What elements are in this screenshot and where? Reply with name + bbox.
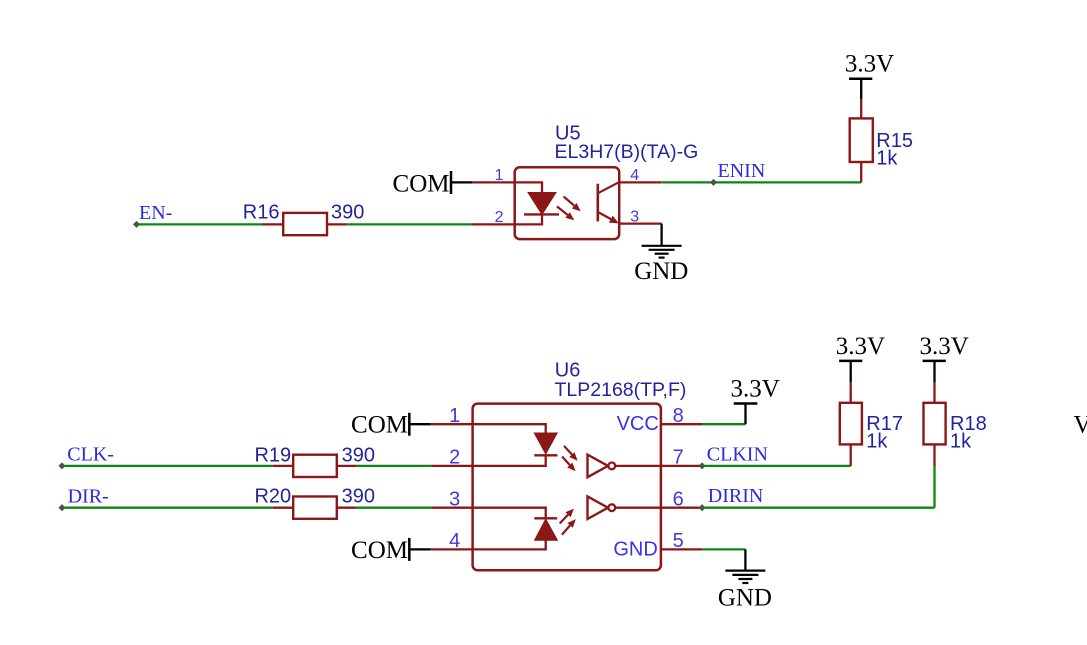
svg-text:TLP2168(TP,F): TLP2168(TP,F): [555, 379, 687, 401]
LED U5 cathode bar: [524, 213, 559, 215]
buffer U6 ch2 triangle: [588, 496, 609, 519]
svg-text:3.3V: 3.3V: [731, 376, 780, 403]
svg-text:VCC: VCC: [617, 413, 659, 435]
svg-text:1: 1: [449, 405, 460, 427]
svg-text:GND: GND: [613, 539, 657, 561]
ground GND2 stem: [744, 549, 746, 570]
wire EN- green: [138, 223, 263, 225]
ground GND2 bar4: [742, 582, 748, 584]
resistor R17 body: [840, 403, 862, 445]
node EN- anchor dot: [133, 221, 140, 228]
resistor R18 body: [924, 403, 946, 445]
wire U6 pin1 internal: [473, 424, 546, 433]
wire DIRIN green: [702, 507, 934, 509]
wire buffer1 output: [615, 465, 661, 467]
wire DIRIN vertical green: [933, 466, 935, 508]
svg-text:3.3V: 3.3V: [845, 51, 894, 78]
wire red to U6 pin 1: [431, 423, 473, 425]
power 3.3V stem: [860, 79, 862, 99]
wire buffer2 output: [615, 507, 661, 509]
light arrow 1 U6 ch2: [560, 515, 568, 524]
wire red to U6 pin 4: [431, 548, 473, 550]
svg-text:3.3V: 3.3V: [836, 333, 885, 360]
resistor R20 body: [293, 497, 337, 519]
node CLK- anchor dot: [58, 462, 65, 469]
LED1 U6 cathode bar: [534, 454, 557, 456]
wire U6 pin8 red: [661, 423, 702, 425]
ground GND1 stem: [660, 224, 662, 246]
ground GND2 bar3: [738, 578, 752, 580]
wire R18 bottom stub: [933, 444, 935, 466]
wire U5 pin2 internal: [515, 214, 542, 224]
node DIRIN anchor dot: [699, 504, 706, 511]
wire R19 right stub: [337, 465, 356, 467]
ground GND1 bar4: [659, 257, 665, 259]
ground GND2 bar2: [732, 574, 758, 576]
svg-text:ENIN: ENIN: [718, 160, 766, 182]
resistor R19 body: [293, 455, 337, 477]
wire pin5 green: [702, 548, 745, 550]
wire R17 top stub: [850, 382, 852, 403]
svg-text:COM: COM: [351, 537, 408, 564]
port COM bar: [450, 171, 453, 194]
wire U5 pin1 internal: [515, 182, 542, 193]
svg-text:EL3H7(B)(TA)-G: EL3H7(B)(TA)-G: [555, 141, 699, 163]
wire R20 right stub: [337, 507, 356, 509]
svg-text:1k: 1k: [950, 430, 972, 452]
light arrow 1 U5: [564, 197, 575, 206]
wire U5 pin3 red: [619, 222, 661, 224]
svg-text:CLKIN: CLKIN: [707, 443, 768, 465]
svg-text:COM: COM: [351, 412, 408, 439]
wire COM mid black stub: [409, 423, 431, 425]
svg-text:2: 2: [449, 447, 460, 469]
svg-text:390: 390: [342, 486, 375, 508]
wire red to U5 pin 2: [471, 223, 514, 225]
port COM mid bar: [408, 413, 411, 436]
svg-text:VM: VM: [1074, 412, 1087, 439]
wire red to U6 pin 2: [431, 465, 472, 467]
light arrow 2 U6 ch1: [562, 457, 570, 466]
svg-text:390: 390: [342, 444, 375, 466]
svg-text:R20: R20: [254, 486, 291, 508]
svg-text:2: 2: [495, 209, 504, 226]
wire U6 pin3 internal: [473, 508, 546, 519]
LED U5 anode triangle: [528, 193, 556, 215]
wire R16 left stub: [262, 223, 283, 225]
wire R15 top stub: [860, 99, 862, 118]
LED2 U6 cathode bar: [534, 517, 557, 519]
light arrow 2 U6 ch2: [562, 525, 570, 534]
svg-text:GND: GND: [718, 584, 772, 611]
transistor collector: [598, 182, 619, 193]
svg-text:GND: GND: [634, 258, 688, 285]
port COM bottom bar: [408, 538, 411, 561]
svg-text:3.3V: 3.3V: [920, 333, 969, 360]
power 3.3V R18 stem: [933, 361, 935, 382]
wire R16 right stub: [327, 223, 347, 225]
wire R17 bottom stub: [850, 444, 852, 466]
wire red to U5 pin 1: [472, 181, 515, 183]
wire green R20 to U6: [356, 507, 431, 509]
wire U5 pin4 red: [619, 181, 661, 183]
wire U6 pin2 internal: [473, 455, 546, 466]
svg-text:DIRIN: DIRIN: [708, 485, 764, 507]
transistor emitter: [598, 212, 612, 219]
LED2 U6 anode triangle (up): [535, 519, 558, 540]
svg-text:4: 4: [449, 530, 460, 552]
wire green R19 to U6: [356, 465, 431, 467]
LED1 U6 anode triangle: [534, 433, 557, 454]
wire green R16 to U5: [347, 223, 472, 225]
svg-text:CLK-: CLK-: [67, 444, 114, 466]
resistor R15 body: [850, 118, 873, 162]
transistor Q base line: [596, 184, 599, 222]
svg-text:3: 3: [449, 489, 460, 511]
buffer U6 ch1 bubble: [608, 463, 615, 470]
power 3.3V R17 stem: [850, 361, 852, 382]
wire U6 pin5 red: [661, 548, 702, 550]
power 3.3V pin8 stem: [744, 404, 746, 425]
wire R20 left stub: [273, 507, 293, 509]
wire DIR- green: [63, 507, 273, 509]
optocoupler U6 body: [473, 404, 661, 571]
light arrow 2 U5: [557, 206, 568, 215]
resistor R16 body: [283, 213, 327, 235]
wire U6 pin6 red: [661, 507, 702, 509]
svg-text:COM: COM: [393, 170, 450, 197]
power 3.3V bar: [849, 77, 872, 80]
wire pin8 green: [702, 423, 745, 425]
ground GND1 bar1: [642, 245, 682, 247]
wire COM bottom black stub: [409, 548, 431, 550]
ground GND1 bar3: [655, 253, 669, 255]
buffer U6 ch1 triangle: [588, 455, 609, 478]
light arrow 1 U6 ch1: [564, 446, 572, 455]
power 3.3V R17 bar: [839, 360, 862, 363]
ground GND1 bar2: [649, 249, 675, 251]
power 3.3V pin8 bar: [734, 402, 758, 405]
wire R18 top stub: [933, 382, 935, 403]
svg-text:390: 390: [331, 201, 364, 223]
svg-text:1k: 1k: [866, 430, 888, 452]
node ENIN anchor dot: [710, 179, 717, 186]
wire U6 pin4 internal: [473, 540, 546, 549]
wire red to U6 pin 3: [431, 507, 472, 509]
wire ENIN green: [661, 181, 861, 183]
buffer U6 ch2 bubble: [608, 504, 615, 511]
wire R19 left stub: [273, 465, 293, 467]
wire R15 bottom stub: [860, 162, 862, 182]
ground GND2 bar1: [725, 569, 765, 571]
svg-text:R16: R16: [243, 201, 280, 223]
svg-text:R19: R19: [254, 444, 291, 466]
node DIR- anchor dot: [58, 504, 65, 511]
wire CLK- green: [63, 465, 273, 467]
svg-text:1k: 1k: [876, 148, 898, 170]
wire CLKIN green: [702, 465, 851, 467]
wire COM black stub: [451, 181, 472, 183]
svg-text:1: 1: [495, 167, 504, 184]
wire U6 pin7 red: [661, 465, 702, 467]
svg-text:DIR-: DIR-: [68, 486, 109, 508]
svg-text:EN-: EN-: [139, 202, 172, 224]
node CLKIN anchor dot: [699, 462, 706, 469]
power 3.3V R18 bar: [923, 360, 946, 363]
optocoupler U5 body: [515, 167, 620, 239]
